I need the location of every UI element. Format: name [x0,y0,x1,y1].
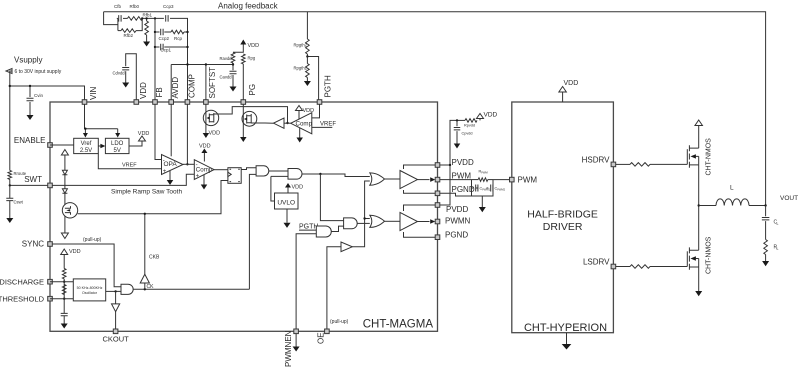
svg-text:PWM1: PWM1 [482,188,490,192]
wire SOFTST to Q1 [205,104,207,110]
wire left rail down [9,86,11,170]
AND gate AND2 [288,169,302,180]
wire into Vref [84,129,86,134]
pin PGTH [317,100,322,105]
wire filter top b [488,179,493,181]
resistor R threshold [62,285,66,295]
pin PVDD2 [435,203,440,208]
wire DISCHARGE to oscillator [50,281,73,283]
svg-text:Rpg: Rpg [248,56,256,61]
wire Cswt to ground [9,201,11,218]
wire UVLO to AND2 input [271,175,288,177]
wire Ccp2-Rcp [164,31,171,33]
wire ramp to latch [78,181,228,214]
resistor Rpg [242,54,246,64]
wire Q2 gate to inverter [251,122,265,124]
junction SWT node [9,184,11,186]
resistor Rfb1 [145,21,149,35]
VDD arrow at Rpvdd [477,114,484,119]
svg-text:CHT-MAGMA: CHT-MAGMA [363,319,434,331]
svg-text:PGND: PGND [445,231,468,240]
AND gate AND4 [344,218,358,229]
diode D1 [62,170,67,175]
wire VIN internal rail [85,104,118,128]
wire PGTH net to AND3 [299,229,316,231]
ground below OPA [167,180,174,185]
pin SOFTST [204,100,209,105]
wire to Cswt [9,185,11,198]
VDD arrow above Rpg [240,40,246,45]
junction PWM logic branch [319,173,321,175]
pin CKOUT [113,329,118,334]
svg-text:CK: CK [147,284,155,290]
wire buffer1 to PVDD1 [404,165,436,169]
wire PVDD1 to RC [440,120,455,165]
pin PGND1 [435,191,440,196]
VDD arrow at LDO output [139,136,146,141]
pin PVDD1 [435,163,440,168]
buffer CKB [140,274,149,283]
wire inverter input [284,122,291,124]
IC U2 CHT-HYPERION half-bridge driver box [512,102,614,333]
wire Ccp2 stub [155,31,160,33]
wire AVDD decoupling rail [171,64,233,66]
svg-text:DRIVER: DRIVER [543,221,583,233]
wire Rpvdd a [455,119,465,121]
arrow below PWMNEN [295,334,297,347]
comparator Comp2 power good [291,113,312,134]
wire buffer2 to PGND2 [404,232,436,237]
svg-text:ENABLE: ENABLE [14,136,46,145]
VDD arrow at UVLO [285,183,291,188]
junction Rpgth tap [306,55,308,57]
svg-text:VDD: VDD [199,144,211,150]
junction Cavdd node [232,63,234,65]
ground below Rfb1 [143,42,150,47]
transistor M1 CHT-NMOS high side [687,145,698,167]
svg-text:VDD: VDD [484,112,498,119]
svg-text:CHT-NMOS: CHT-NMOS [706,138,713,176]
svg-text:SOFTST: SOFTST [208,67,217,99]
wire ENABLE to Vref [50,144,74,146]
svg-text:PGTH: PGTH [324,75,333,97]
buffer PWM driver2 [400,212,418,230]
VDD arrow at Comp [201,149,207,154]
wire Rfb2 left leg [117,18,119,30]
svg-text:PWM: PWM [518,175,538,184]
resistor Rpgth1 [306,64,310,78]
wire Vsupply to VIN [10,71,85,100]
wire CKOUT buffer to pin [115,312,117,329]
junction comparator output [286,122,288,124]
AND gate AND1 [256,166,269,176]
svg-text:Vref: Vref [81,141,92,147]
wire Comp ground stem [203,175,205,185]
wire Comp2 VDD stem [298,110,300,119]
ground below M2 [695,291,702,296]
svg-text:FB: FB [155,87,164,97]
pin AVDD [169,100,174,105]
svg-text:Cfb: Cfb [114,4,122,9]
wire through discharge node [63,279,65,314]
capacitor Cpvdd [454,128,461,130]
svg-text:VOUT: VOUT [780,195,798,202]
wire Comp out to latch [214,169,228,171]
wire Cvin to ground [29,102,31,115]
resistor RL [764,240,768,255]
wire PGND1 to filter [440,193,472,196]
resistor Rfb2 [121,29,136,33]
svg-text:VDD: VDD [138,131,150,137]
diode D2 [62,189,67,194]
wire Cavdd to ground [232,75,234,87]
svg-text:VREF: VREF [320,122,336,128]
svg-text:PWM: PWM [481,170,487,174]
wire Comp2 ground stem [299,128,301,138]
arrow down below diode chain [61,233,68,239]
wire branch to AND4 [320,174,343,221]
resistor Rcp [171,30,184,34]
wire row1 a [117,17,118,19]
wire oscillator out to AND5 [106,290,121,292]
wire PGTH pin to Comp2 [312,104,320,118]
wire VDD to Rdis [63,255,65,269]
pin SWT [48,183,53,188]
block oscillator 50KHz-800KHz [73,279,105,301]
wire cap to ground [63,316,65,324]
wire OR2 to driver buffer2 [385,220,401,222]
block UVLO [275,193,299,209]
junction Rcp right [186,31,188,33]
wire THRESHOLD to oscillator [50,298,73,300]
AND gate AND3 [316,226,331,237]
svg-text:6 to 30V input supply: 6 to 30V input supply [15,69,62,75]
svg-text:CKB: CKB [149,255,160,261]
wire AND2 to OR1 [302,174,370,177]
wire SYNC to AND5 [52,244,121,287]
svg-text:Rpgth2: Rpgth2 [294,43,308,48]
svg-text:Rfb0: Rfb0 [130,4,140,9]
wire buffer1 to PGND1 [404,190,436,193]
junction COMP node [186,163,188,165]
svg-text:LDO: LDO [111,141,124,147]
svg-text:5V: 5V [114,148,121,154]
junction PVDD rail [449,164,451,166]
ground below Cswt [6,218,13,223]
pin COMP [185,100,190,105]
wire LSDRV to gate [650,266,687,268]
junction switch node [698,204,700,206]
pin PWM driver [510,177,515,182]
wire inverter out [265,122,274,124]
junction CKB to ramp [144,213,146,215]
wire AND3 to AND4 [331,226,343,231]
wire Cpvdd to ground [456,131,458,143]
wire to CKB buffer [144,283,146,289]
capacitor CL [762,218,770,220]
resistor Rpvdd [465,119,477,123]
svg-text:COMP: COMP [188,74,197,98]
svg-text:PWMN: PWMN [445,216,471,225]
svg-text:Cvin: Cvin [34,93,43,98]
OR gate OR1 [370,173,385,185]
junction COMP riser crossing [186,63,188,65]
wire driver VDD stem [562,91,564,102]
wire M2 source to ground [698,267,700,291]
wire Q1 gate to comparator [214,107,288,123]
wire diode chain b [64,175,66,189]
capacitor Cpwm2 [487,185,493,192]
svg-text:LSDRV: LSDRV [583,257,610,266]
svg-text:CHT-NMOS: CHT-NMOS [706,236,713,274]
pin SYNC [48,242,53,247]
capacitor Ccp1 [161,44,163,51]
svg-text:Rpgth1: Rpgth1 [294,66,308,71]
pin PWMNEN [294,329,299,334]
ground below driver [566,333,568,344]
wire Rpvdd to VDD [479,119,481,121]
ground below Cvin [27,115,34,120]
arrow into LDO [115,133,120,138]
ground below oscillator cap [61,324,68,329]
ground below RL [762,261,769,266]
svg-text:AVDD: AVDD [171,77,180,99]
wire Rfb2 right leg [136,18,142,30]
junction Cvin tap [29,85,31,87]
wire to Cpvdd [456,120,458,126]
wire Ravdd to Cavdd [232,63,234,70]
svg-text:UVLO: UVLO [277,199,295,206]
svg-text:CHT-HYPERION: CHT-HYPERION [524,322,607,334]
svg-text:VDD: VDD [303,108,315,114]
capacitor Cavdd [230,71,237,73]
capacitor Cvin [27,98,34,100]
wire LDO output to VDD [129,141,142,146]
wire OPA out to Comp minus [183,163,194,165]
wire row1 c [143,17,164,19]
ground below Comp2 [296,138,303,143]
pin PG [241,100,246,105]
junction Ccp1 row left [154,46,156,48]
arrow up at ENABLE [61,150,68,156]
svg-text:CKOUT: CKOUT [102,335,129,344]
svg-text:PWMNEN: PWMNEN [284,330,293,367]
wire VDD to Ravdd [233,45,243,53]
svg-text:THRESHOLD: THRESHOLD [0,294,45,303]
svg-text:OPA: OPA [164,161,178,168]
junction FB node top [154,17,156,19]
pin LSDRV [611,264,616,269]
wire buffer2 out [418,221,430,223]
wire RL to ground [765,255,767,262]
resistor R HSDRV gate [630,163,650,167]
wire Rcp to COMP riser [184,31,188,33]
wire CKB riser [144,214,146,274]
svg-text:Cavdd: Cavdd [220,75,233,80]
junction CKB tap [144,288,146,290]
junction SOFTST node [205,63,207,65]
wire PVDD rail to PVDD2 [440,165,450,205]
op-amp OPA [162,155,184,175]
wire UVLO VDD stem [287,187,289,193]
pin VIN [82,100,87,105]
wire LSDRV a [616,266,630,268]
svg-text:Cswt: Cswt [14,200,24,205]
wire FB to OPA minus [155,104,162,159]
svg-text:2.5V: 2.5V [80,148,92,154]
svg-text:VDD: VDD [209,131,221,137]
ground below Cpvdd [454,144,461,149]
block Vref 2.5V [74,138,99,153]
pin PWM out [435,177,440,182]
wire PG to Q2 [242,104,244,111]
AND gate AND5 clock [121,284,133,294]
resistor Rpwm [478,178,488,182]
ground below Cdvdd [122,83,129,88]
arrow into PWM pin [430,177,435,182]
wire filter to driver PWM [493,179,510,181]
svg-text:Simple Ramp Saw Tooth: Simple Ramp Saw Tooth [111,188,182,195]
wire to Cvin [29,86,31,97]
wire divider tap to PGTH pin [307,54,318,100]
buffer CKOUT [112,304,120,312]
svg-text:(pull-up): (pull-up) [330,319,349,325]
Vsupply input terminal [6,69,12,74]
wire M2 drain to switch node [698,206,700,251]
wire Comp VDD stem [203,153,205,162]
svg-text:SWT: SWT [24,175,42,184]
svg-text:Rfb1: Rfb1 [143,13,153,18]
resistor R discharge [62,269,66,279]
wire tap to Rpgth1 [306,57,308,64]
capacitor Ccp3 [166,15,168,22]
VDD arrow at SYNC [61,249,68,255]
wire UVLO ground stem [286,209,288,223]
svg-text:PG: PG [248,84,257,96]
wire VREF to OPA [98,154,161,169]
junction Rfb1 node [145,17,147,19]
VDD arrow at Comp2 [296,106,303,111]
wire HSDRV a [616,163,630,165]
buffer OE [341,242,352,252]
svg-text:SYNC: SYNC [22,240,44,249]
wire COMP to OPA output node [186,104,188,164]
pin VDD [134,100,139,105]
wire OE buffer to OR1 [352,181,370,247]
wire CK to AND1 input [249,174,256,289]
resistor Rroute [8,170,12,179]
wire SOFTST riser [205,65,207,100]
pin HSDRV [611,162,616,167]
junction THRESHOLD node [63,298,65,300]
resistor Ravdd [231,52,235,63]
inductor L [716,199,749,206]
wire Cdvdd to ground [125,71,127,82]
transistor M2 CHT-NMOS low side [687,247,698,269]
svg-text:PVDD: PVDD [446,205,468,214]
svg-text:VDD: VDD [564,80,579,87]
wire Ccp1 stub [155,46,160,48]
resistor R LSDRV gate [630,265,650,269]
wire buffer1 out [418,179,430,181]
ground below Rpgth1 [304,81,311,86]
wire VOUT to CL [765,206,767,217]
arrow into PWMN pin [430,219,435,224]
OR gate OR2 [370,215,385,227]
capacitor Cfb [119,15,121,22]
wire CL to RL [765,221,767,239]
capacitor C oscillator [61,313,68,315]
inverter U3 [274,118,285,128]
comparator Comp [194,160,214,180]
wire AND4 to OR2 [357,222,370,224]
buffer PWM driver1 [400,171,418,189]
svg-text:Analog feedback: Analog feedback [218,2,279,11]
svg-text:VDD: VDD [248,43,260,49]
wire Rpg to PG pin [242,64,244,100]
wire UVLO output [271,176,275,201]
pin PWMN [435,219,440,224]
wire PWMNEN to AND3 [296,234,316,329]
svg-text:Ccp2: Ccp2 [159,36,170,41]
junction DISCHARGE node [63,281,65,283]
wire AVDD riser [170,65,172,100]
wire saw tooth to Comp plus [52,174,194,185]
capacitor Cswt [6,198,13,200]
svg-text:PWM2: PWM2 [497,188,505,192]
capacitor Cpwm1 [472,185,478,192]
svg-text:Ravdd: Ravdd [220,56,233,61]
ground below filter [479,207,486,212]
wire OE to OR2 input [365,218,370,220]
wire OPA ground stem [169,171,171,180]
transistor Q1 soft-start [203,110,218,125]
junction OE branch [363,217,365,219]
svg-text:Rpvdd: Rpvdd [464,124,475,128]
wire into LDO [117,129,119,134]
svg-text:PVDD: PVDD [452,158,474,167]
wire filter ground stem [481,196,483,207]
svg-text:(pull-up): (pull-up) [83,237,102,243]
wire M1 drain riser [698,126,700,148]
wire AVDD to OPA supply [170,104,172,156]
IC U1 CHT-MAGMA box [50,102,438,331]
wire L to VOUT [749,205,766,207]
wire Rpgth1 to ground [306,78,308,82]
latch SR flip-flop [228,168,241,184]
ground below UVLO [284,223,291,228]
pin OE [325,329,330,334]
junction Vref feed [84,128,86,130]
svg-text:+: + [196,174,200,180]
svg-text:-: - [163,158,165,164]
wire to CKOUT buffer [115,291,117,304]
svg-text:Comp: Comp [196,166,213,173]
svg-text:VDD: VDD [292,185,304,191]
svg-text:HSDRV: HSDRV [582,155,611,164]
svg-text:VDD: VDD [69,249,81,255]
svg-text:L: L [777,247,779,251]
wire analog feedback from VOUT [104,12,766,206]
pin PGND2 [435,235,440,240]
wire row1 b [123,17,128,19]
wire Q1 to ground [205,129,207,134]
wire OE riser [327,247,341,329]
wire feedback to Rfb2 node [104,12,118,25]
block LDO 5V [105,138,129,153]
pin DISCHARGE [48,279,53,284]
svg-text:-: - [196,162,198,168]
